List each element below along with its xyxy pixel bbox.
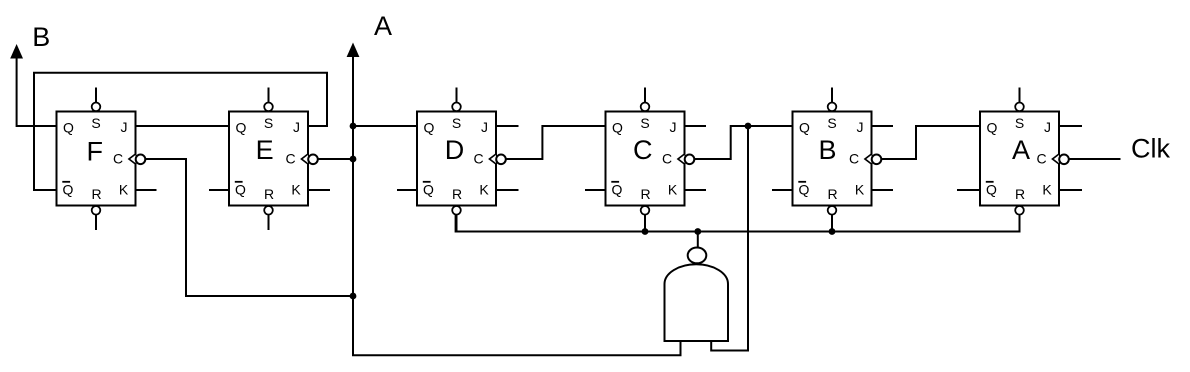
svg-text:C: C (473, 151, 483, 167)
wire B.R to bus (831, 215, 833, 232)
svg-text:Q: Q (63, 120, 74, 136)
svg-text:S: S (91, 115, 100, 131)
svg-text:Q: Q (612, 182, 623, 198)
stub A.Qbar (957, 189, 980, 191)
svg-text:A: A (374, 11, 392, 41)
stub E.Qbar (209, 189, 229, 191)
stub C.K (685, 189, 707, 191)
stub C.J (685, 125, 707, 127)
svg-text:J: J (481, 119, 488, 135)
JK flip-flop E (229, 88, 318, 231)
svg-text:E: E (256, 135, 274, 165)
svg-text:C: C (849, 151, 859, 167)
svg-text:S: S (1015, 115, 1024, 131)
JK flip-flop B (793, 88, 882, 232)
svg-text:R: R (452, 186, 462, 202)
wire F.Q to output B (17, 57, 57, 126)
svg-text:J: J (121, 119, 128, 135)
JK flip-flop F (57, 88, 146, 231)
wire F.Qbar to E.J (34, 73, 327, 190)
NAND gate U1 output bubble (688, 248, 707, 264)
svg-text:F: F (86, 137, 103, 167)
svg-text:Q: Q (799, 120, 810, 136)
stub A.K (1059, 189, 1082, 191)
stub D.K (496, 189, 519, 191)
svg-text:R: R (91, 186, 101, 202)
svg-text:C: C (113, 151, 123, 167)
JK flip-flop A (980, 88, 1069, 232)
stub A.J (1059, 125, 1082, 127)
wire F.C to node A (145, 159, 353, 296)
wire C.Q to D.C (506, 126, 606, 159)
junction node A / D.Q (350, 123, 357, 130)
svg-text:K: K (291, 182, 301, 198)
svg-text:J: J (857, 119, 864, 135)
svg-text:Q: Q (612, 120, 623, 136)
svg-text:K: K (479, 182, 489, 198)
stub D.J (496, 125, 519, 127)
svg-text:S: S (452, 115, 461, 131)
svg-text:C: C (662, 151, 672, 167)
wire D.Q to node A (353, 125, 417, 127)
svg-text:J: J (1044, 119, 1051, 135)
svg-text:Q: Q (986, 182, 997, 198)
junction NAND output / R bus (694, 228, 701, 235)
stub B.K (872, 189, 894, 191)
svg-text:S: S (640, 115, 649, 131)
svg-text:Q: Q (424, 120, 435, 136)
wire node A (D.Q) vertical and run to NAND input (353, 57, 681, 356)
stub D.Qbar (397, 189, 417, 191)
svg-text:Q: Q (63, 182, 74, 198)
junction B.Q / NAND input (745, 123, 752, 130)
wire B.Q to C.C (694, 126, 792, 159)
svg-text:B: B (32, 22, 50, 52)
stub C.Qbar (585, 189, 606, 191)
JK flip-flop C (606, 88, 695, 232)
junction node A / F.C (350, 293, 357, 300)
svg-text:K: K (1042, 182, 1052, 198)
stub E.K (309, 189, 331, 191)
svg-text:Q: Q (987, 120, 998, 136)
wire B.Q to NAND input (711, 126, 748, 351)
svg-text:Q: Q (423, 182, 434, 198)
wire Clk to A.C (1069, 158, 1121, 160)
arrowhead output B (10, 44, 23, 59)
junction node A / E.C (350, 156, 357, 163)
svg-text:C: C (1036, 151, 1046, 167)
stub F.K (136, 189, 157, 191)
svg-text:B: B (818, 135, 836, 165)
wire C.R to bus (644, 215, 646, 232)
svg-text:Q: Q (235, 182, 246, 198)
wire R bus (D,C,B,A clear) (456, 215, 1020, 232)
wire E.Q to F.J (136, 125, 230, 127)
svg-text:D: D (445, 135, 465, 165)
wire A.Q to B.C (881, 126, 980, 159)
svg-text:R: R (1015, 186, 1025, 202)
svg-text:K: K (119, 182, 129, 198)
NAND gate U1 body (665, 264, 729, 341)
svg-text:J: J (670, 119, 677, 135)
svg-text:C: C (633, 135, 653, 165)
junction C.R / bus (642, 228, 649, 235)
svg-text:J: J (293, 119, 300, 135)
svg-text:C: C (285, 151, 295, 167)
svg-text:A: A (1012, 135, 1030, 165)
svg-text:S: S (827, 115, 836, 131)
svg-text:K: K (668, 182, 678, 198)
svg-text:Q: Q (799, 182, 810, 198)
stub B.Qbar (772, 189, 793, 191)
svg-text:Clk: Clk (1131, 134, 1170, 164)
svg-text:R: R (827, 186, 837, 202)
svg-text:R: R (264, 186, 274, 202)
wire E.C to node A (318, 158, 353, 160)
wire NAND output to R bus (697, 232, 699, 248)
junction B.R / bus (829, 228, 836, 235)
arrowhead output A (347, 43, 360, 58)
svg-text:R: R (640, 186, 650, 202)
svg-text:S: S (264, 115, 273, 131)
svg-text:K: K (855, 182, 865, 198)
svg-text:Q: Q (236, 120, 247, 136)
stub B.J (872, 125, 894, 127)
JK flip-flop D (417, 88, 506, 232)
